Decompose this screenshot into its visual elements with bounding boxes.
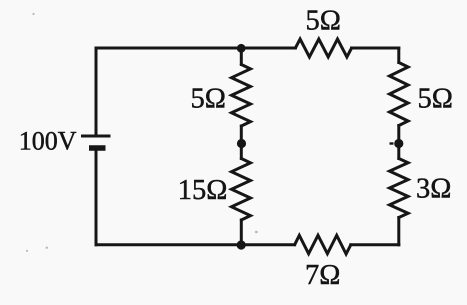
svg-text:3Ω: 3Ω: [416, 174, 451, 205]
wire bottom rail right segment: [351, 243, 399, 246]
resistor 15ohm middle vertical: [232, 159, 251, 221]
node junction top middle: [237, 44, 246, 53]
wire middle branch between 5ohm and 15ohm: [240, 126, 243, 159]
wire middle branch top stub: [240, 48, 243, 65]
resistor 5ohm top horizontal: [295, 39, 351, 57]
resistor 5ohm middle vertical: [232, 65, 251, 127]
resistor 7ohm bottom horizontal: [295, 235, 351, 254]
wire left rail upper (top corner to battery top plate): [95, 48, 98, 135]
wire right rail bottom stub: [397, 218, 400, 245]
svg-text:5Ω: 5Ω: [191, 84, 226, 115]
tick artifact left of right junction: [390, 142, 394, 144]
resistor 3ohm right vertical: [390, 159, 409, 218]
node junction bottom middle: [237, 240, 246, 249]
battery 100V top plate (long): [81, 135, 111, 138]
node junction right branch center: [394, 139, 403, 148]
svg-text:5Ω: 5Ω: [418, 84, 453, 115]
svg-text:7Ω: 7Ω: [305, 260, 340, 291]
wire top rail left segment: [96, 47, 295, 50]
wire right rail top stub: [397, 48, 400, 63]
svg-text:100V: 100V: [19, 127, 77, 156]
wire middle branch bottom stub: [240, 220, 243, 245]
wire top rail right segment: [352, 47, 399, 50]
svg-text:5Ω: 5Ω: [306, 5, 341, 36]
wire bottom rail left segment: [96, 243, 295, 246]
battery 100V bottom plate (short thick): [89, 145, 106, 151]
svg-text:15Ω: 15Ω: [178, 175, 228, 206]
wire left rail lower (battery bottom plate to bottom corner): [95, 148, 98, 245]
resistor 5ohm right vertical: [390, 63, 409, 126]
node junction middle branch center: [237, 139, 246, 148]
wire right rail between 5ohm and 3ohm: [397, 126, 400, 159]
